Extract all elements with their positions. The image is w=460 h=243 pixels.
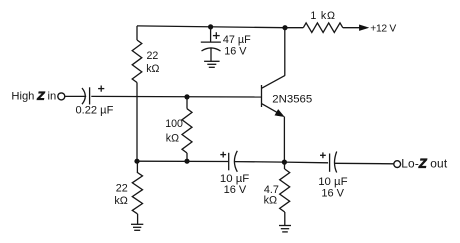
wire: divider mid rail to bootstrap cap (137, 160, 228, 162)
ground (47uF bypass) (204, 61, 220, 67)
node: collector junction on top rail (282, 25, 287, 30)
wire: output cap to output terminal (335, 162, 394, 165)
svg-text:22: 22 (116, 183, 128, 195)
svg-text:High Z in: High Z in (11, 90, 56, 102)
svg-text:100: 100 (165, 118, 183, 130)
top supply rail wire (137, 26, 285, 28)
wire: emitter down to output node (283, 117, 285, 163)
svg-text:0.22 µF: 0.22 µF (76, 105, 114, 117)
svg-text:kΩ: kΩ (264, 194, 277, 206)
svg-text:Lo-Z out: Lo-Z out (401, 157, 448, 171)
node: emitter junction (282, 160, 287, 165)
node: 100k bottom junction (184, 159, 189, 164)
ground (4.7k emitter resistor) (279, 226, 291, 232)
svg-text:10 µF: 10 µF (318, 176, 347, 188)
ground (lower 22k divider) (131, 224, 143, 230)
svg-text:16 V: 16 V (321, 187, 344, 199)
capacitor C-out 10 uF 16 V coupling (318, 152, 347, 200)
resistor 22 kOhm (lower divider) (114, 161, 142, 224)
transistor Q1 2N3565 NPN (262, 76, 313, 117)
wire with arrow to +12 V supply (343, 23, 397, 34)
wire: bootstrap cap to emitter node (235, 161, 285, 164)
wire: 100k lower lead (186, 153, 188, 161)
capacitor C-in 0.22 uF coupling (76, 86, 114, 117)
node: top rail / 47uF junction (208, 24, 213, 29)
capacitor C-bypass 47 uF 16 V (201, 27, 251, 61)
terminal: Lo-Z out (394, 157, 448, 171)
wire: emitter node to output coupling cap (284, 161, 328, 164)
svg-text:kΩ: kΩ (114, 195, 127, 207)
wire: 100k upper lead (186, 97, 188, 109)
capacitor C-bootstrap 10 uF 16 V (220, 151, 249, 196)
svg-text:2N3565: 2N3565 (272, 94, 312, 106)
svg-text:16 V: 16 V (224, 45, 247, 57)
node: base / 100k junction (184, 94, 189, 99)
resistor 1 kOhm (supply feed) (303, 10, 343, 33)
terminal: High Z in (11, 90, 64, 102)
svg-text:1 kΩ: 1 kΩ (310, 10, 335, 22)
wire: divider branch lower segment (crosses base line, no junction) (136, 83, 138, 162)
svg-text:kΩ: kΩ (166, 133, 179, 145)
svg-text:16 V: 16 V (224, 184, 247, 196)
wire: input terminal to coupling cap (65, 95, 86, 97)
svg-text:22: 22 (147, 50, 159, 62)
node: divider mid junction (134, 159, 139, 164)
wire: upper divider branch top lead (136, 26, 138, 40)
wire: collector to top rail (284, 28, 286, 76)
svg-text:kΩ: kΩ (146, 63, 159, 75)
resistor 4.7 kOhm (emitter load) (264, 162, 290, 225)
svg-text:+12 V: +12 V (370, 23, 396, 34)
resistor 22 kOhm (upper divider) (132, 40, 159, 83)
wire: base line from coupling cap to transistor base (91, 95, 261, 98)
resistor 100 kOhm (base bias isolation) (165, 109, 192, 153)
wire: rail to 1k resistor (285, 27, 303, 29)
